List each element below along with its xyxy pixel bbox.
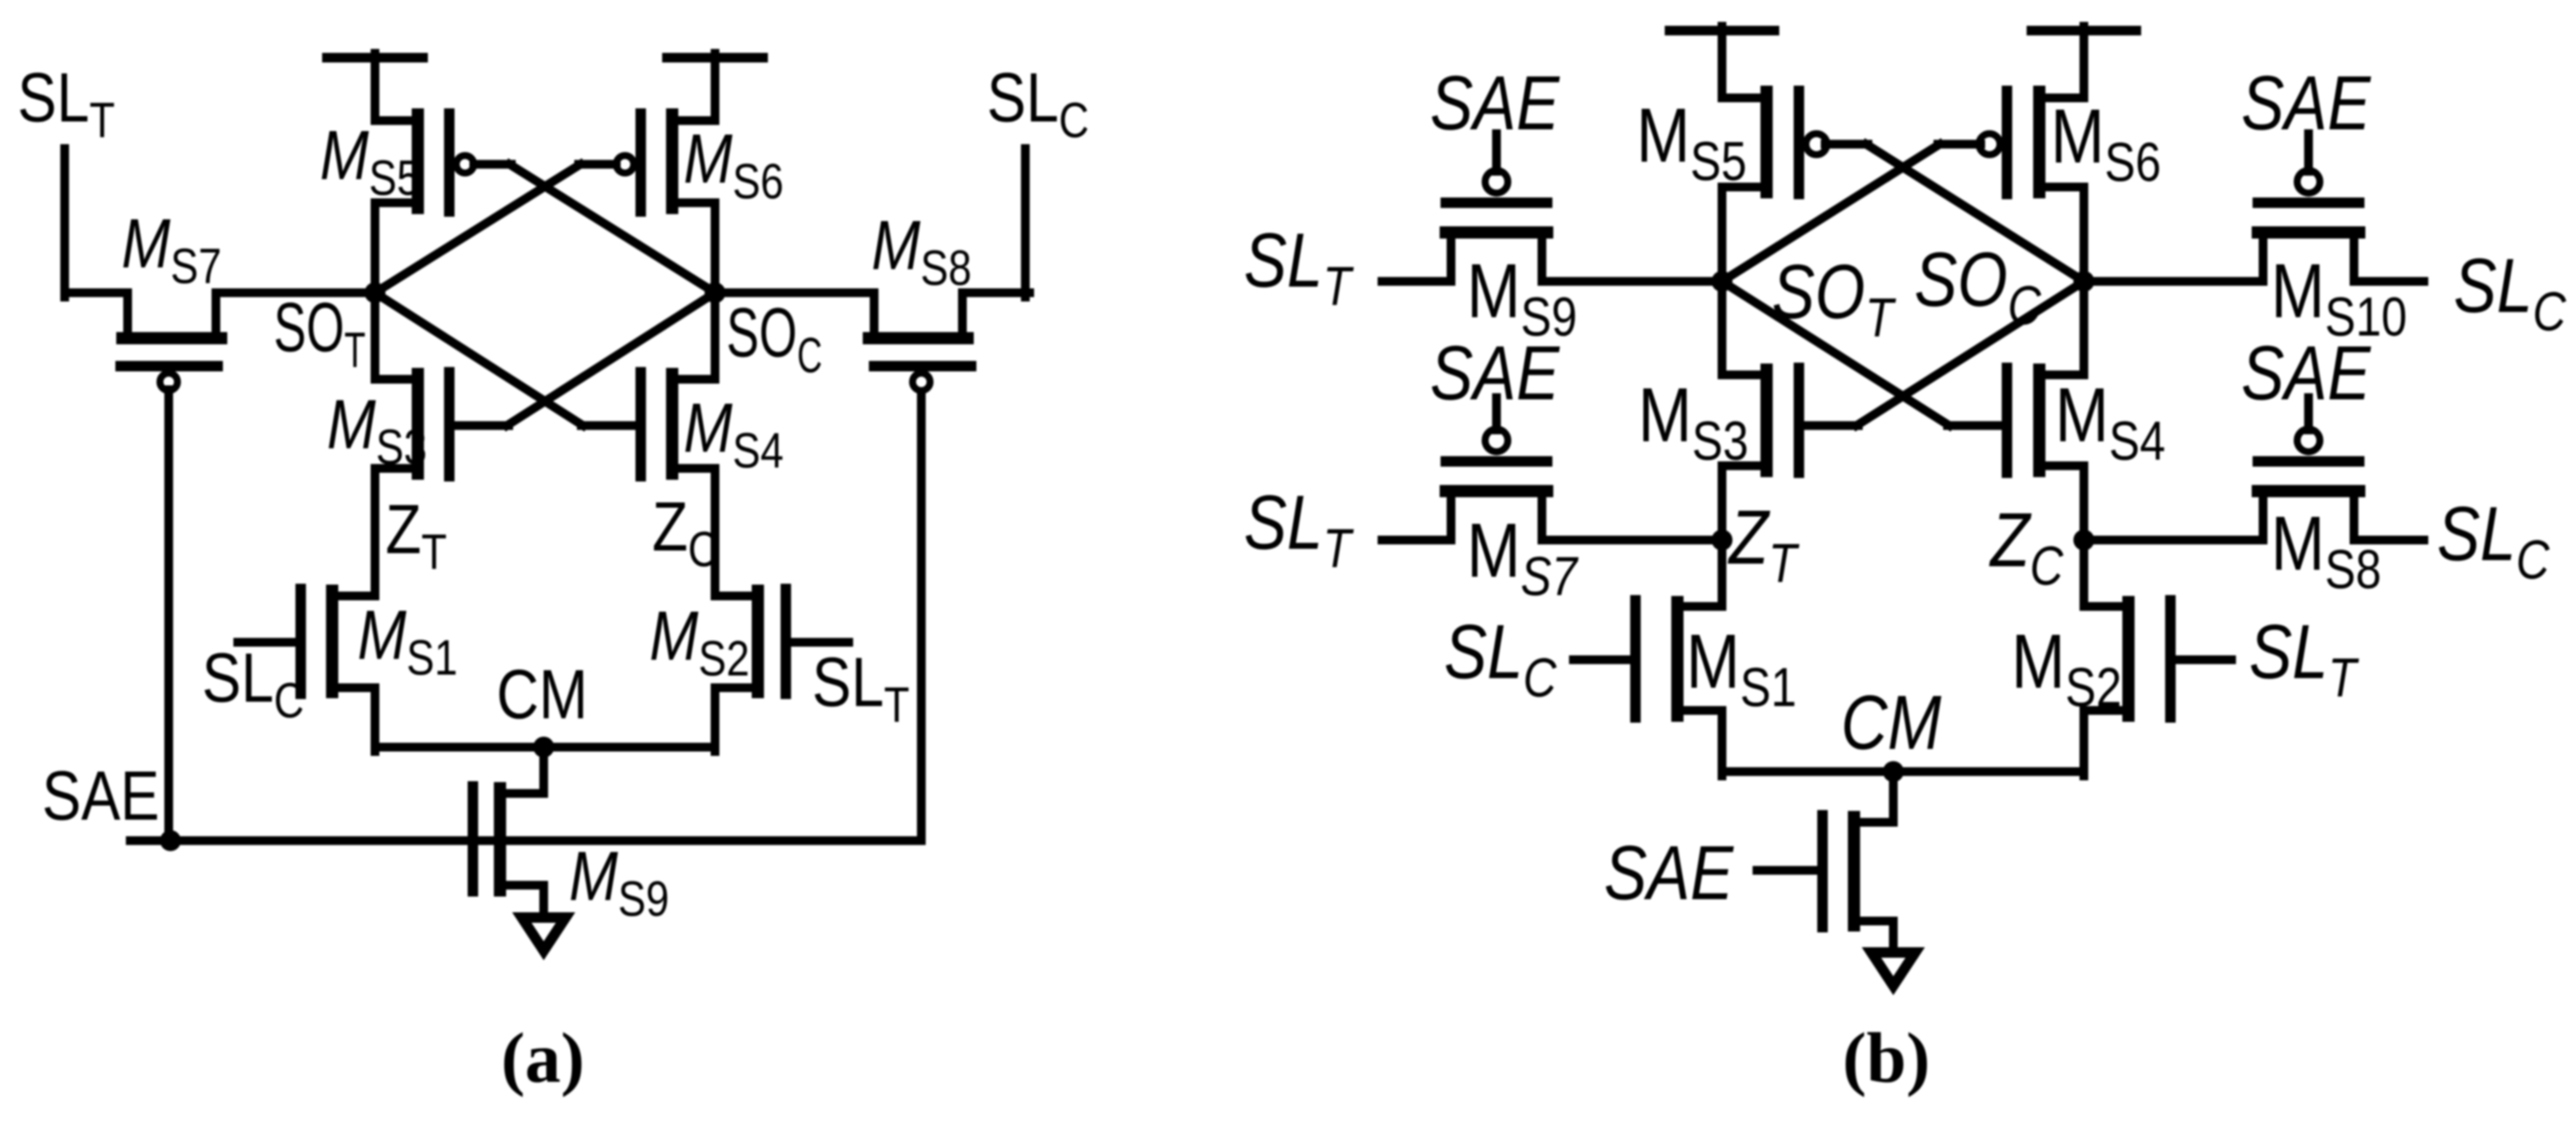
svg-text:CM: CM <box>496 655 588 733</box>
svg-text:SAE: SAE <box>2241 329 2371 416</box>
svg-text:SAE: SAE <box>1604 829 1734 916</box>
svg-text:SAE: SAE <box>1430 59 1560 146</box>
svg-text:(b): (b) <box>1843 1018 1930 1098</box>
svg-text:SAE: SAE <box>1430 329 1560 416</box>
svg-text:(a): (a) <box>501 1018 585 1098</box>
svg-text:CM: CM <box>1841 679 1942 765</box>
svg-text:SAE: SAE <box>2241 59 2371 146</box>
svg-text:SAE: SAE <box>42 757 159 835</box>
